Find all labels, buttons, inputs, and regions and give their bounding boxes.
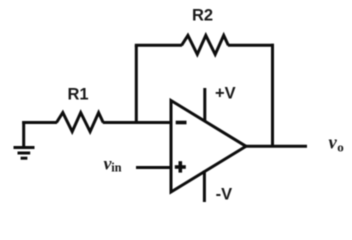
wire feedback top right segment	[228, 44, 274, 47]
svg-text:R2: R2	[192, 6, 213, 24]
wire input left segment	[22, 121, 57, 124]
wire +V supply stub	[203, 88, 206, 122]
resistor R1	[57, 113, 104, 132]
wire feedback vertical right	[271, 44, 274, 148]
wire input right segment	[103, 121, 171, 124]
wire -V supply stub	[203, 171, 206, 203]
svg-text:o: o	[337, 139, 344, 154]
wire feedback vertical left	[135, 45, 138, 124]
op-amp U1	[171, 101, 246, 193]
wire output	[245, 145, 308, 148]
op-amp U1 non-inverting input marker +	[175, 165, 186, 169]
wire vin input	[136, 166, 171, 169]
op-amp U1 inverting input marker -	[176, 121, 187, 125]
svg-text:+V: +V	[215, 85, 236, 103]
svg-text:in: in	[111, 161, 121, 175]
ground	[14, 121, 35, 158]
svg-text:v: v	[329, 134, 338, 154]
resistor R2	[182, 35, 229, 54]
svg-text:-V: -V	[216, 186, 233, 204]
wire feedback top left segment	[135, 44, 182, 47]
svg-text:R1: R1	[68, 85, 89, 103]
